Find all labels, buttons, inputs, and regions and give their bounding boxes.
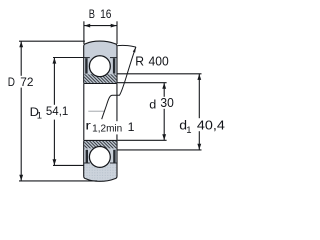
right shield bar (bottom section): [113, 150, 115, 163]
B arrow left: [84, 24, 90, 28]
inner ring hatched strip (top section): [84, 74, 116, 83]
outer+inner ring top cross-section block: [84, 41, 117, 83]
left shoulder zone (top section): [84, 58, 89, 74]
text mask for 72: [19, 76, 34, 88]
R400 reference arc: [118, 45, 136, 47]
d1 arrow up: [197, 74, 201, 80]
text mask for 30: [160, 97, 175, 109]
svg-text:1: 1: [186, 125, 191, 136]
D arrow up: [19, 41, 23, 47]
d dimension line: [163, 83, 165, 140]
D1 arrow down: [53, 159, 57, 165]
text mask for 1,2min: [103, 121, 121, 134]
left shield bar (top section): [85, 58, 87, 73]
svg-text:d: d: [149, 97, 156, 111]
right shoulder zone (top section): [110, 58, 116, 74]
svg-text:B: B: [89, 7, 95, 21]
d arrow down: [162, 134, 166, 140]
svg-text:1,2min: 1,2min: [92, 124, 122, 135]
outer+inner ring bottom cross-section block: [84, 140, 117, 181]
B arrow right: [111, 24, 117, 28]
outer ring shoulder line left (top section): [84, 57, 90, 59]
outer ring shoulder line right (top section): [110, 57, 117, 59]
B dimension line: [84, 25, 117, 27]
text mask for 40,4: [196, 118, 225, 131]
right side face line between sections: [116, 83, 118, 140]
left shield bar (bottom section): [86, 150, 88, 163]
B extension line left: [83, 21, 85, 44]
R400 / r leader curve: [102, 47, 136, 119]
d arrow up: [162, 83, 166, 89]
D dimension line: [20, 41, 22, 181]
svg-text:R: R: [135, 55, 144, 69]
svg-text:72: 72: [20, 75, 33, 89]
axis centerline: [88, 110, 104, 112]
D extension line bottom: [19, 180, 97, 182]
left side face line between sections: [83, 83, 85, 140]
svg-text:30: 30: [160, 96, 173, 110]
svg-text:r: r: [85, 118, 91, 132]
d extension line bottom: [117, 139, 166, 141]
inner ring hatched strip (bottom section): [84, 141, 116, 148]
svg-text:1: 1: [37, 111, 42, 122]
text mask for 54,1: [45, 105, 69, 120]
D1 arrow up: [53, 58, 57, 64]
svg-text:D: D: [8, 75, 15, 89]
svg-text:1: 1: [128, 120, 135, 134]
d extension line top: [117, 82, 166, 84]
D arrow down: [19, 175, 23, 181]
svg-text:54,1: 54,1: [46, 104, 69, 118]
ball (bottom section): [89, 146, 110, 167]
right shoulder zone (bottom section): [110, 149, 116, 162]
d1 arrow down: [197, 144, 201, 150]
D extension line top: [19, 40, 85, 42]
d1 dimension line: [198, 74, 200, 150]
right shield bar (top section): [113, 58, 115, 73]
R400 leader arrowhead: [133, 47, 136, 53]
d1 extension line top: [117, 73, 201, 75]
svg-text:16: 16: [100, 7, 112, 21]
outer ring shoulder line right (bottom section): [110, 162, 117, 164]
d1 extension line bottom: [117, 149, 201, 151]
ball (top section): [89, 56, 110, 77]
B extension line right: [116, 21, 118, 44]
left shoulder zone (bottom section): [84, 149, 89, 162]
D1 dimension line: [53, 58, 55, 166]
svg-text:400: 400: [149, 54, 169, 69]
D1 extension line top: [53, 57, 84, 59]
outer ring shoulder line left (bottom section): [84, 162, 90, 164]
D1 extension line bottom: [53, 164, 84, 166]
svg-text:40,4: 40,4: [197, 117, 225, 132]
